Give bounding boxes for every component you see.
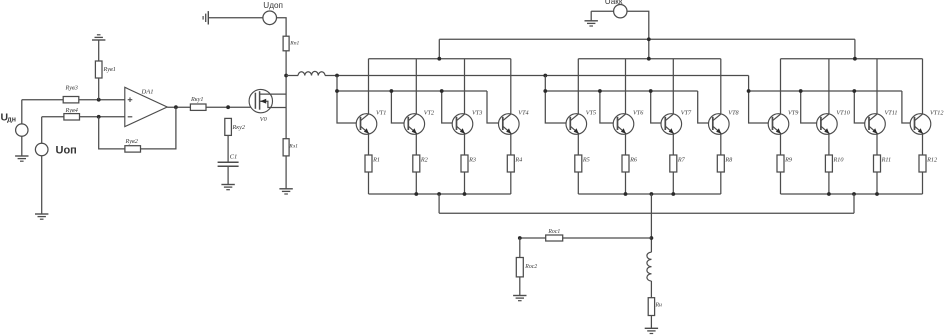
transistor VT12 — [910, 114, 931, 135]
svg-text:Rэ1: Rэ1 — [288, 143, 298, 149]
svg-text:DA1: DA1 — [141, 89, 154, 96]
svg-text:R9: R9 — [784, 156, 792, 163]
wire VT8 collector — [720, 59, 722, 114]
svg-text:R3: R3 — [468, 156, 476, 163]
node Rку2 junction — [226, 105, 230, 109]
svg-text:Uдоп: Uдоп — [263, 1, 283, 10]
resistor Rув2 — [125, 146, 141, 152]
wire Rку1 to gate — [206, 106, 255, 108]
node VT1 base junction — [335, 89, 339, 93]
wire base feed line — [337, 75, 749, 77]
svg-text:Rув3: Rув3 — [65, 85, 78, 92]
wire supply bus — [439, 38, 855, 40]
wire group2 base bus — [545, 90, 697, 92]
wire Uдоп right — [277, 18, 287, 36]
wire L2 to Rн — [650, 281, 652, 298]
svg-text:R5: R5 — [582, 156, 590, 163]
resistor Rку2 — [225, 118, 232, 135]
svg-text:VT8: VT8 — [728, 110, 739, 117]
wire VT9 base drop — [749, 76, 773, 124]
capacitor C1 — [218, 161, 239, 163]
resistor R6 — [622, 155, 629, 172]
ground below Uоп — [35, 214, 48, 219]
wire VT10 emitter — [828, 134, 830, 155]
node R7 bus junction — [671, 192, 675, 196]
transistor VT8 — [709, 114, 730, 135]
transistor VT7 — [661, 114, 682, 135]
transistor VT4 — [499, 114, 520, 135]
source Uакк — [614, 5, 627, 18]
svg-text:R1: R1 — [372, 156, 380, 163]
wire VT4 emitter — [510, 134, 512, 155]
resistor Rэ1 — [283, 139, 289, 156]
svg-text:Rку1: Rку1 — [190, 96, 204, 103]
resistor R7 — [670, 155, 677, 172]
inductor L1 — [286, 75, 298, 77]
resistor Rку1 — [190, 104, 206, 110]
wire divider down — [519, 238, 521, 258]
node VT6 base junction — [598, 89, 602, 93]
node - input junction — [97, 115, 101, 119]
transistor V0 body — [249, 89, 272, 112]
node R2 bus junction — [414, 192, 418, 196]
node g2 feed — [543, 74, 547, 78]
wire VT7 emitter — [672, 134, 674, 155]
ground below Uдн — [15, 156, 28, 161]
wire feedback down-left — [140, 107, 176, 149]
wire VT8 base drop — [698, 91, 713, 123]
wire VT5 base drop — [545, 76, 570, 124]
resistor Rос1 — [546, 235, 563, 241]
wire R5 down — [577, 172, 579, 194]
wire VT3 collector — [464, 59, 466, 114]
node divider junction — [518, 236, 522, 240]
wire op-amp output — [167, 106, 190, 108]
wire feedback to - input — [99, 117, 125, 149]
svg-text:VT4: VT4 — [518, 110, 528, 117]
svg-text:Rп1: Rп1 — [289, 40, 299, 46]
wire VT4 collector — [510, 59, 512, 114]
resistor R5 — [575, 155, 582, 172]
svg-text:C1: C1 — [230, 154, 238, 161]
resistor R1 — [365, 155, 372, 172]
wire VT7 base drop — [651, 91, 666, 123]
wire Uоп up — [41, 117, 43, 143]
wire VT1 emitter — [368, 134, 370, 155]
wire R11 down — [876, 172, 878, 194]
wire R1 down — [368, 172, 370, 194]
node inductor branch — [284, 74, 288, 78]
wire VT3 emitter — [464, 134, 466, 155]
ground left of Uдоп — [203, 11, 208, 24]
svg-text:VT10: VT10 — [836, 110, 850, 117]
node group2 supply tap — [647, 57, 651, 61]
wire Rку2 to C1 — [227, 135, 229, 162]
wire VT1 base drop — [337, 76, 361, 124]
node group1 supply tap — [437, 57, 441, 61]
svg-text:R11: R11 — [881, 156, 892, 163]
source Uдн — [16, 124, 28, 136]
svg-text:R8: R8 — [724, 156, 733, 163]
svg-text:VT1: VT1 — [376, 110, 386, 117]
svg-text:VT5: VT5 — [586, 110, 596, 117]
wire Uакк right — [627, 11, 649, 59]
transistor VT3 — [452, 114, 473, 135]
wire Rэ1 down — [285, 156, 287, 189]
wire R12 down — [922, 172, 924, 194]
wire VT2 collector — [415, 59, 417, 114]
svg-text:Rн: Rн — [655, 302, 663, 308]
V0 source arrow — [260, 99, 266, 104]
svg-text:Rку2: Rку2 — [232, 124, 246, 131]
op-amp - sign — [128, 116, 133, 118]
resistor Rп1 — [283, 36, 289, 51]
op-amp DA1 — [125, 87, 167, 126]
ground above Rув1 — [92, 35, 105, 40]
node VT5 base junction — [543, 89, 547, 93]
ground below Uакк — [585, 21, 598, 26]
wire VT4 base drop — [487, 91, 503, 123]
node R3 bus junction — [463, 192, 467, 196]
wire Rос1 branch — [520, 237, 652, 239]
node R11 bus junction — [875, 192, 879, 196]
node group3 supply tap — [853, 57, 857, 61]
resistor R8 — [717, 155, 724, 172]
svg-text:VT3: VT3 — [472, 110, 482, 117]
wire VT10 collector — [828, 59, 830, 114]
svg-text:Rос2: Rос2 — [524, 264, 537, 270]
op-amp + sign — [128, 99, 133, 101]
wire VT9 collector — [780, 59, 782, 114]
wire R3 down — [464, 172, 466, 194]
wire common emitter bus — [439, 212, 854, 214]
wire group1 tap — [438, 194, 440, 213]
wire VT3 base drop — [442, 91, 457, 123]
wire Uдн to Rув3 — [22, 99, 63, 101]
svg-text:VT7: VT7 — [681, 110, 692, 117]
wire Uдоп left — [208, 17, 263, 19]
node g1 feed — [335, 74, 339, 78]
wire VT11 base drop — [854, 91, 869, 123]
svg-text:V0: V0 — [260, 116, 268, 123]
wire group1 base bus — [337, 90, 487, 92]
wire VT5 emitter — [577, 134, 579, 155]
resistor Rн — [648, 298, 654, 316]
wire VT11 collector — [876, 59, 878, 114]
wire R7 down — [672, 172, 674, 194]
wire R10 down — [828, 172, 830, 194]
wire group3 tap — [853, 194, 855, 213]
wire Uдн down — [21, 136, 23, 156]
node group2 tap junction — [650, 192, 654, 196]
wire VT10 base drop — [801, 91, 821, 123]
svg-text:R10: R10 — [833, 156, 845, 163]
V0 gate bar — [254, 93, 256, 109]
resistor Rос2 — [516, 258, 523, 277]
transistor VT6 — [613, 114, 634, 135]
transistor VT9 — [768, 114, 789, 135]
svg-text:R12: R12 — [926, 156, 937, 163]
wire VT12 base drop — [902, 91, 915, 123]
svg-text:R6: R6 — [629, 156, 638, 163]
svg-text:дн: дн — [7, 116, 16, 123]
svg-text:Rув4: Rув4 — [65, 107, 78, 114]
svg-text:VT11: VT11 — [885, 110, 898, 117]
wire Rув4 to op-amp - — [80, 116, 125, 118]
resistor Rув1 — [95, 61, 102, 78]
node + input junction — [97, 98, 101, 102]
wire VT5 collector — [577, 59, 579, 114]
node VT2 base junction — [390, 89, 394, 93]
wire C1 down — [227, 166, 229, 184]
node group3 tap junction — [852, 192, 856, 196]
svg-text:R7: R7 — [677, 156, 686, 163]
resistor Rув3 — [63, 97, 79, 103]
resistor R9 — [777, 155, 784, 172]
wire Rос2 down — [519, 277, 521, 296]
svg-text:VT12: VT12 — [930, 110, 943, 117]
source Uдоп — [263, 11, 277, 25]
transistor VT1 — [356, 114, 377, 135]
wire R8 down — [720, 172, 722, 194]
wire VT2 base drop — [391, 91, 408, 123]
wire Rув1 down — [98, 78, 100, 100]
ground below C1 — [221, 185, 234, 190]
wire supply drop right — [854, 39, 856, 58]
node VT3 base junction — [440, 89, 444, 93]
node group1 tap junction — [437, 192, 441, 196]
resistor R11 — [874, 155, 881, 172]
V0 channel bar — [259, 91, 261, 110]
node VT11 base junction — [852, 89, 856, 93]
wire VT11 emitter — [876, 134, 878, 155]
wire group3 emitter bus — [781, 193, 923, 195]
source Uоп — [35, 143, 48, 156]
transistor VT11 — [865, 114, 886, 135]
wire VT8 emitter — [720, 134, 722, 155]
wire Rн down — [650, 316, 652, 329]
wire R4 down — [510, 172, 512, 194]
wire VT6 emitter — [625, 134, 627, 155]
svg-text:Rув2: Rув2 — [125, 138, 138, 145]
V0 drain stub — [260, 93, 287, 95]
wire Uдн up — [21, 100, 23, 124]
wire Uакк ground drop — [590, 11, 592, 21]
wire VT12 collector — [922, 59, 924, 114]
wire group3 collector bus — [781, 58, 923, 60]
resistor R2 — [413, 155, 420, 172]
wire group1 emitter bus — [369, 193, 511, 195]
wire Rув3 to op-amp + — [79, 99, 125, 101]
transistor VT10 — [817, 114, 838, 135]
inductor L2 — [647, 252, 651, 259]
node output Rос1 junction — [650, 236, 654, 240]
wire VT6 collector — [625, 59, 627, 114]
transistor VT5 — [566, 114, 587, 135]
svg-text:VT2: VT2 — [424, 110, 434, 117]
svg-text:R4: R4 — [514, 156, 522, 163]
svg-text:R2: R2 — [420, 156, 428, 163]
wire VT12 emitter — [922, 134, 924, 155]
wire group2 emitter bus — [578, 193, 721, 195]
wire Uоп down — [41, 156, 43, 214]
wire R2 down — [415, 172, 417, 194]
wire group2 collector bus — [578, 58, 721, 60]
wire Uоп to Rув4 — [42, 116, 64, 118]
node R10 bus junction — [827, 192, 831, 196]
node VT10 base junction — [799, 89, 803, 93]
ground below Rос2 — [513, 296, 526, 301]
wire VT6 base drop — [600, 91, 618, 123]
wire output column — [650, 194, 652, 252]
resistor R10 — [825, 155, 832, 172]
V0 source stub — [260, 101, 287, 107]
node VT7 base junction — [649, 89, 653, 93]
node supply bus crossing — [647, 37, 651, 41]
wire group1 collector bus — [369, 58, 511, 60]
node output junction — [174, 105, 178, 109]
wire R9 down — [780, 172, 782, 194]
wire VT9 emitter — [780, 134, 782, 155]
wire supply drop left — [438, 39, 440, 58]
wire VT1 collector — [368, 59, 370, 114]
svg-text:VT9: VT9 — [788, 110, 798, 117]
resistor R12 — [919, 155, 926, 172]
svg-text:VT6: VT6 — [633, 110, 644, 117]
wire R6 down — [625, 172, 627, 194]
svg-text:Rув1: Rув1 — [103, 66, 116, 73]
transistor VT2 — [404, 114, 425, 135]
svg-text:Rос1: Rос1 — [547, 229, 560, 235]
resistor R3 — [461, 155, 468, 172]
wire VT2 emitter — [415, 134, 417, 155]
wire group3 base bus — [749, 90, 902, 92]
resistor Rув4 — [64, 114, 80, 120]
svg-text:Uоп: Uоп — [56, 145, 77, 157]
resistor R4 — [507, 155, 514, 172]
wire Uакк left — [591, 10, 613, 12]
node VT9 base junction — [747, 89, 751, 93]
wire Rув1 up — [98, 40, 100, 61]
ground below Rэ1 — [279, 189, 292, 194]
wire Rп1 down to drain column — [285, 51, 287, 139]
wire VT7 collector — [672, 59, 674, 114]
node R6 bus junction — [624, 192, 628, 196]
ground below Rн — [645, 328, 658, 333]
